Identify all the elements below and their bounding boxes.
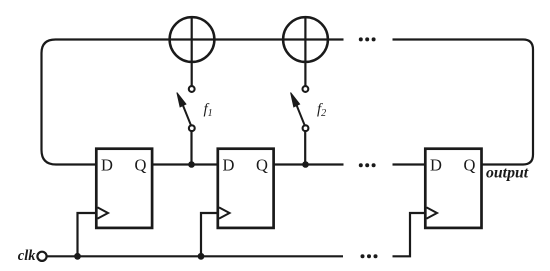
clk input terminal bbox=[37, 252, 46, 261]
junction node Q2 bbox=[302, 161, 309, 168]
flip-flop FF2 box bbox=[218, 149, 274, 228]
wire into D3 (after ellipsis) bbox=[393, 163, 426, 165]
wire clk branch to FF3 (after ellipsis) bbox=[393, 213, 426, 256]
wire clk branch to FF1 bbox=[78, 213, 97, 256]
wire switch S2 to Q2 node bbox=[304, 131, 306, 164]
junction clk node 2 bbox=[198, 253, 205, 260]
svg-text:Q: Q bbox=[256, 156, 268, 175]
wire clk branch to FF2 bbox=[201, 213, 218, 256]
FF2 clock triangle bbox=[219, 207, 230, 218]
XOR gate X1 bbox=[170, 17, 215, 62]
wire switch S1 to Q1 node bbox=[190, 131, 192, 164]
ellipsis bottom row bbox=[361, 254, 378, 258]
wire left feedback loop (output net to D of FF1 through XORs) bbox=[42, 40, 344, 165]
svg-text:Q: Q bbox=[464, 156, 476, 175]
ellipsis top row bbox=[359, 37, 376, 41]
terminal (open) of X1 branch bbox=[189, 86, 195, 92]
switch S1 bbox=[189, 125, 195, 131]
wire X2 vertical branch bbox=[304, 17, 306, 86]
FF1 clock triangle bbox=[98, 207, 109, 218]
flip-flop FF3 box bbox=[425, 149, 481, 228]
wire Q1 to D2 bbox=[152, 163, 218, 165]
ellipsis middle row bbox=[359, 163, 376, 167]
svg-text:D: D bbox=[430, 156, 442, 175]
junction node Q1 bbox=[188, 161, 195, 168]
svg-text:clk: clk bbox=[18, 248, 36, 264]
wire clk bus bbox=[47, 255, 343, 257]
wire X1 vertical branch bbox=[191, 17, 193, 86]
wire right feedback segment with corner to output node bbox=[393, 40, 534, 165]
FF3 clock triangle bbox=[427, 207, 438, 218]
junction clk node 1 bbox=[74, 253, 81, 260]
XOR gate X2 bbox=[283, 17, 328, 62]
svg-text:D: D bbox=[101, 156, 113, 175]
flip-flop FF1 box bbox=[96, 149, 152, 228]
svg-text:Q: Q bbox=[135, 156, 147, 175]
terminal (open) of X2 branch bbox=[303, 86, 309, 92]
svg-text:D: D bbox=[223, 156, 235, 175]
wire Q2 to right (before ellipsis) bbox=[274, 163, 344, 165]
svg-text:output: output bbox=[486, 165, 529, 182]
switch S2 bbox=[303, 125, 309, 131]
